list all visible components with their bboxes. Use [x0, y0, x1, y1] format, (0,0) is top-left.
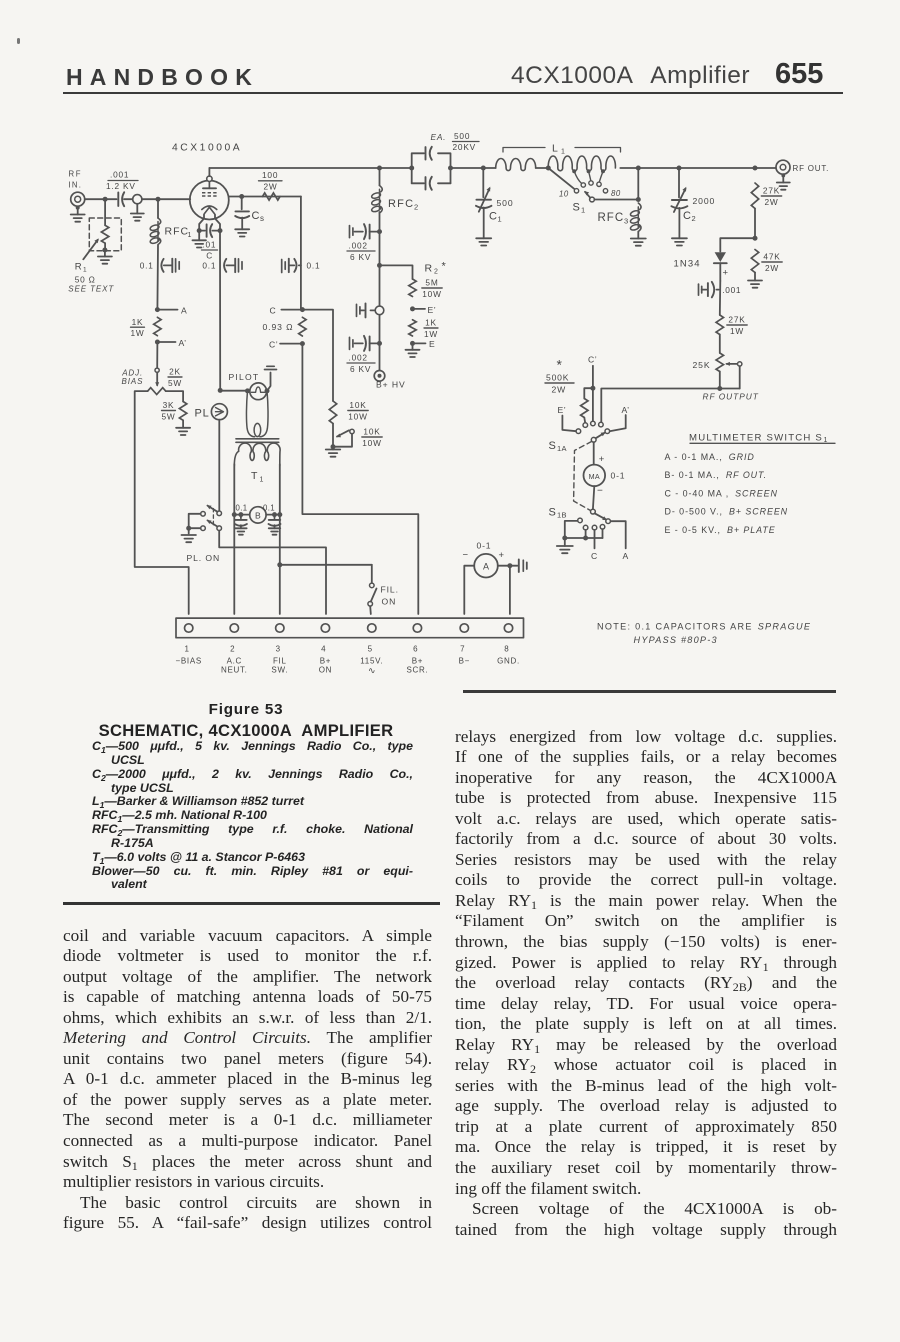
- svg-text:3K: 3K: [163, 400, 175, 410]
- svg-text:E’: E’: [558, 405, 567, 415]
- left column body text: [63, 926, 432, 1234]
- svg-text:1: 1: [184, 645, 189, 654]
- page number: [775, 58, 823, 91]
- svg-text:1: 1: [581, 206, 585, 215]
- capacitor .002 6KV plate bypass lower: [347, 336, 380, 374]
- ground at RF OUT: [777, 174, 790, 190]
- running head chapter title: [511, 62, 750, 90]
- svg-text:0-1: 0-1: [611, 471, 626, 481]
- node C screen metering: [270, 306, 305, 316]
- svg-text:E: E: [429, 339, 436, 349]
- wire to pilot lamp: [220, 388, 250, 393]
- node plate bypass 1: [377, 229, 382, 234]
- svg-text:*: *: [557, 357, 563, 373]
- wire PL switch to terminal 4: [219, 531, 326, 615]
- wire A-prime to bias pot wiper: [156, 342, 158, 368]
- capacitor 0.1 cathode bypass: [202, 259, 242, 273]
- svg-text:B+ HV: B+ HV: [376, 380, 406, 390]
- legend entry B rf out: [665, 470, 768, 480]
- gang link S1A S1B (dashed): [574, 442, 592, 511]
- resistor 0.93 ohm screen meter shunt: [263, 317, 307, 336]
- wire R2 branch: [380, 265, 413, 279]
- svg-text:∿: ∿: [368, 666, 376, 676]
- resistor R2 5M 10W screen dropping: [409, 261, 447, 299]
- pilot lamp leads to T1: [246, 391, 268, 437]
- svg-text:1: 1: [561, 149, 565, 156]
- capacitor C .001 1.2KV input coupling: [106, 170, 138, 207]
- wire RFC1 to bias network: [156, 245, 159, 309]
- svg-text:10: 10: [559, 190, 569, 199]
- node filament junction at pilot: [218, 388, 223, 393]
- rheostat tap 10K 10W screen bleeder lower: [331, 424, 383, 450]
- node Cs tap: [239, 194, 244, 199]
- node L1 tap 10 meter: [546, 166, 551, 171]
- wire 25K to S1A contact B: [601, 372, 739, 423]
- svg-text:T: T: [251, 470, 258, 482]
- svg-text:5W: 5W: [168, 378, 182, 388]
- svg-text:0.1: 0.1: [263, 504, 275, 513]
- svg-text:10W: 10W: [422, 289, 441, 299]
- svg-text:1W: 1W: [130, 328, 144, 338]
- svg-text:2W: 2W: [765, 263, 779, 273]
- wire 27K to divider node: [754, 209, 756, 239]
- svg-text:A: A: [483, 561, 489, 571]
- svg-text:PILOT: PILOT: [229, 372, 260, 382]
- svg-text:RF OUTPUT: RF OUTPUT: [703, 392, 759, 402]
- chassis ground at pilot: [265, 366, 277, 393]
- svg-text:C: C: [591, 551, 598, 561]
- svg-text:4: 4: [321, 645, 326, 654]
- svg-text:B−: B−: [459, 657, 470, 666]
- terminal B+HV: [374, 371, 405, 390]
- terminal labels: [175, 657, 519, 676]
- wire screen line down: [300, 197, 302, 310]
- svg-text:L: L: [552, 143, 559, 155]
- svg-text:1: 1: [260, 477, 264, 484]
- svg-text:IN.: IN.: [69, 181, 83, 190]
- running head HANDBOOK: [66, 64, 259, 91]
- rule above right column: [463, 690, 836, 693]
- transformer T1 core: [236, 439, 279, 443]
- svg-text:B+: B+: [412, 657, 423, 666]
- meter M2 B blower interlock: [234, 507, 279, 523]
- svg-text:2: 2: [434, 269, 438, 276]
- wire 27K 1W to 25K pot: [719, 335, 721, 354]
- svg-text:1: 1: [83, 267, 87, 274]
- inductor RFC2 plate choke: [371, 168, 418, 213]
- label L1 bracket: [503, 143, 621, 156]
- svg-text:S: S: [549, 440, 557, 452]
- svg-text:C: C: [270, 306, 277, 316]
- switch S1A wiper: [549, 432, 606, 453]
- feedthrough terminal at grid input: [133, 195, 142, 204]
- wire bias pot left leg to terminal 1: [135, 391, 189, 614]
- wire tube filament right leg: [215, 215, 220, 230]
- legend entry E b+ plate: [665, 525, 776, 535]
- svg-text:5M: 5M: [425, 278, 438, 288]
- wire S1B contact C net: [591, 530, 598, 561]
- capacitor .001 detector bypass: [699, 282, 742, 298]
- capacitor 0.1 screen bypass: [282, 259, 321, 273]
- capacitor EA 500 20KV blocking (parallel pair): [380, 131, 480, 190]
- wire plate line: [209, 168, 379, 176]
- svg-text:PL: PL: [195, 408, 210, 420]
- ground below 3K resistor: [176, 420, 190, 435]
- inductor L1 tank coil section 2 with taps: [548, 156, 638, 193]
- svg-text:1K: 1K: [425, 318, 437, 328]
- capacitor .01 C filament bypass: [199, 224, 220, 260]
- wire T1 left to terminal 2: [233, 515, 235, 614]
- wire C-prime to S1A: [590, 366, 595, 421]
- resistor 27K 2W detector: [751, 183, 781, 209]
- wire L1 to RF OUT: [638, 167, 776, 169]
- svg-text:10W: 10W: [348, 411, 367, 421]
- node B meter row right: [277, 512, 282, 517]
- legend MULTIMETER SWITCH S1: [689, 433, 835, 445]
- inductor RFC1 grid choke: [149, 199, 191, 244]
- ground below Cs: [235, 229, 249, 236]
- svg-text:B+: B+: [320, 657, 331, 666]
- svg-text:6: 6: [413, 645, 418, 654]
- lamp PL: [195, 404, 228, 420]
- svg-text:C: C: [206, 251, 213, 261]
- switch S3 FIL ON: [368, 565, 399, 614]
- svg-text:NOTE: 0.1 CAPACITORS ARESPRAGU: NOTE: 0.1 CAPACITORS ARESPRAGUE: [597, 622, 811, 632]
- svg-text:7: 7: [460, 645, 465, 654]
- node R2 tap: [377, 263, 382, 268]
- svg-text:0.1: 0.1: [236, 504, 248, 513]
- label RF OUTPUT: [703, 392, 759, 402]
- svg-text:6 KV: 6 KV: [350, 364, 371, 374]
- switch S1B wiper: [591, 509, 608, 520]
- legend entry D b+ screen: [665, 507, 789, 517]
- node C1 tap: [481, 166, 486, 171]
- wire E-prime to S1A contact: [562, 416, 576, 432]
- wire bias pot to 3K resistor: [166, 391, 183, 401]
- node filament left: [197, 228, 202, 233]
- label A-prime net at S1A: [622, 405, 630, 415]
- resistor R1 50 ohm (dashed box, variable): [68, 199, 121, 293]
- svg-text:+: +: [499, 550, 505, 561]
- svg-text:3: 3: [276, 645, 281, 654]
- svg-text:3: 3: [624, 217, 628, 226]
- svg-text:ON: ON: [319, 666, 332, 675]
- svg-text:2W: 2W: [552, 385, 567, 395]
- svg-text:0.93 Ω: 0.93 Ω: [263, 322, 294, 332]
- svg-text:1N34: 1N34: [674, 259, 701, 270]
- capacitor C2 2000 load (variable): [671, 168, 715, 238]
- ground below screen bleeder: [326, 447, 341, 457]
- ground below R2 chain: [406, 343, 420, 357]
- resistor 47K 2W detector load: [751, 250, 782, 273]
- wire EA to C1: [451, 167, 496, 169]
- inductor RFC3: [598, 203, 642, 239]
- svg-text:RFC: RFC: [388, 198, 414, 210]
- svg-text:27K: 27K: [763, 186, 780, 196]
- svg-text:2: 2: [230, 645, 235, 654]
- svg-text:B- 0-1 MA.,RF OUT.: B- 0-1 MA.,RF OUT.: [665, 470, 768, 480]
- svg-text:C: C: [489, 211, 498, 223]
- svg-text:27K: 27K: [728, 315, 745, 325]
- capacitor .002 6KV plate bypass upper: [347, 224, 380, 262]
- svg-text:10W: 10W: [362, 438, 381, 448]
- wire RFC2 to B+HV: [379, 212, 381, 370]
- svg-text:FIL.: FIL.: [381, 585, 399, 595]
- ground at input feedthrough: [131, 204, 144, 221]
- terminal pins 1-8: [185, 624, 513, 632]
- resistor 27K 1W detector filter: [716, 315, 747, 336]
- svg-text:1B: 1B: [557, 511, 567, 520]
- wire A-prime to S1A contact: [610, 415, 626, 431]
- resistor 100 2W screen: [259, 170, 283, 200]
- legend entry C screen: [665, 488, 778, 498]
- ground below C1: [476, 238, 491, 245]
- svg-text:8: 8: [504, 645, 509, 654]
- svg-text:.001: .001: [110, 170, 129, 180]
- node C-prime: [269, 340, 305, 350]
- ground S1B: [557, 538, 573, 553]
- svg-text:BIAS: BIAS: [122, 377, 144, 386]
- svg-text:C - 0-40 MA ,SCREEN: C - 0-40 MA ,SCREEN: [665, 488, 778, 498]
- svg-text:MULTIMETER SWITCH S1: MULTIMETER SWITCH S1: [689, 433, 829, 445]
- svg-text:80: 80: [611, 189, 621, 198]
- svg-text:A - 0-1 MA.,GRID: A - 0-1 MA.,GRID: [665, 452, 755, 462]
- node B meter row left: [232, 512, 237, 517]
- transformer T1 filament winding: [234, 443, 280, 514]
- ground below 47K: [748, 273, 762, 288]
- label C-prime net at S1A: [588, 355, 597, 365]
- svg-text:FIL: FIL: [273, 657, 287, 666]
- label E-prime net at S1A: [558, 405, 567, 415]
- ground at RF IN: [71, 206, 85, 222]
- resistor 1K 1W meter multiplier: [409, 318, 438, 339]
- svg-text:100: 100: [262, 170, 278, 180]
- svg-text:A’: A’: [179, 338, 187, 348]
- figure caption: [57, 701, 435, 741]
- ground below R1: [98, 250, 112, 264]
- wire tube filament left leg: [199, 215, 204, 230]
- right column body text: [455, 727, 837, 1241]
- svg-text:−: −: [463, 550, 469, 561]
- label tube type 4CX1000A: [172, 143, 242, 154]
- svg-text:E’: E’: [428, 305, 437, 315]
- capacitor 0.1 grid bypass: [140, 259, 180, 273]
- svg-text:−: −: [597, 486, 603, 497]
- svg-text:MA: MA: [589, 472, 600, 481]
- svg-text:A: A: [181, 305, 188, 315]
- svg-text:0.1: 0.1: [202, 260, 216, 270]
- head rule: [63, 92, 843, 95]
- capacitor Cs screen bypass: [235, 197, 264, 230]
- tube V1 4CX1000A tetrode: [190, 176, 229, 219]
- svg-text:GND.: GND.: [497, 657, 520, 666]
- resistor 10K 10W screen bleeder upper: [329, 400, 368, 423]
- svg-text:2W: 2W: [764, 197, 778, 207]
- svg-text:A’: A’: [622, 405, 630, 415]
- switch S1B label: [549, 507, 567, 520]
- svg-text:R: R: [75, 262, 83, 273]
- svg-text:+: +: [599, 454, 605, 465]
- resistor 1K 1W grid meter shunt: [130, 317, 161, 338]
- capacitor 0.1 line bypass left: [235, 504, 248, 535]
- diode 1N34 rectifier: [674, 252, 729, 281]
- terminal strip: [176, 618, 524, 638]
- ground below RFC3: [631, 239, 646, 246]
- svg-text:47K: 47K: [763, 252, 780, 262]
- svg-text:B: B: [255, 510, 261, 520]
- svg-text:2000: 2000: [693, 196, 716, 206]
- svg-text:.001: .001: [722, 285, 741, 295]
- svg-text:1K: 1K: [132, 317, 144, 327]
- svg-text:HYPASS #80P-3: HYPASS #80P-3: [634, 635, 718, 645]
- svg-text:RF: RF: [69, 170, 83, 179]
- svg-text:1A: 1A: [557, 444, 567, 453]
- svg-text:.002: .002: [349, 241, 368, 251]
- node grid RFC tap: [156, 197, 161, 202]
- svg-text:SCR.: SCR.: [406, 666, 428, 675]
- wire S1B contact E to ground bus: [565, 521, 578, 538]
- svg-text:RFC: RFC: [598, 212, 625, 224]
- svg-text:1: 1: [498, 215, 502, 224]
- svg-text:4CX1000A: 4CX1000A: [172, 143, 242, 154]
- svg-text:500K: 500K: [546, 373, 569, 383]
- svg-text:s: s: [260, 214, 264, 223]
- svg-text:*: *: [442, 261, 447, 273]
- svg-text:ON: ON: [382, 597, 397, 607]
- connector J2 RF OUT: [776, 160, 829, 174]
- potentiometer 2K 5W ADJ BIAS: [121, 367, 182, 395]
- wire screen line: [229, 196, 301, 198]
- svg-text:50 Ω: 50 Ω: [75, 275, 96, 285]
- node E tap: [410, 339, 436, 349]
- switch S2 PL ON (2 pole): [186, 420, 221, 563]
- svg-text:0.1: 0.1: [140, 260, 154, 270]
- svg-text:2: 2: [692, 214, 696, 223]
- switch S1B contacts: [578, 518, 605, 530]
- svg-text:.002: .002: [349, 353, 368, 363]
- ground below C2: [672, 238, 687, 245]
- svg-text:R: R: [425, 263, 433, 275]
- svg-text:S: S: [573, 202, 581, 214]
- svg-text:PL. ON: PL. ON: [187, 553, 221, 563]
- ground PL ON switch: [181, 535, 196, 542]
- svg-text:5W: 5W: [161, 411, 175, 421]
- wire screen supply to terminal 6: [302, 344, 418, 614]
- wire node C to screen bleeder: [302, 310, 333, 401]
- node 27K tap: [753, 166, 758, 171]
- wire diode to 27K 1W: [719, 281, 722, 315]
- feedthrough capacitor on B+HV line: [357, 303, 384, 317]
- svg-text:1W: 1W: [730, 326, 744, 336]
- svg-text:D- 0-500 V.,B+ SCREEN: D- 0-500 V.,B+ SCREEN: [665, 507, 789, 517]
- node C2 tap: [677, 166, 682, 171]
- node filament right: [218, 228, 223, 233]
- svg-text:A.C: A.C: [227, 657, 242, 666]
- svg-text:NEUT.: NEUT.: [221, 666, 248, 675]
- svg-text:115V.: 115V.: [360, 657, 383, 666]
- wire MA meter to S1B: [593, 486, 603, 510]
- svg-text:500: 500: [454, 131, 470, 141]
- inductor L1 tank coil section 1: [496, 158, 549, 170]
- svg-text:500: 500: [497, 198, 514, 208]
- wire T1 right to terminal 3: [279, 515, 281, 614]
- svg-text:C’: C’: [588, 355, 597, 365]
- resistor 3K 5W bias bleeder: [161, 400, 186, 421]
- wire S1B wiper to A net: [606, 519, 629, 561]
- lamp PILOT: [229, 372, 267, 400]
- svg-text:10K: 10K: [363, 427, 380, 437]
- svg-text:S: S: [549, 507, 557, 519]
- node RFC2 top: [377, 166, 382, 171]
- svg-text:C: C: [252, 210, 261, 222]
- resistor 500K 2W multiplier: [545, 357, 593, 423]
- svg-text:−BIAS: −BIAS: [175, 657, 201, 666]
- wire RF IN to coupling capacitor: [85, 198, 117, 200]
- svg-text:A: A: [623, 551, 630, 561]
- svg-text:0.1: 0.1: [307, 260, 321, 270]
- node RFC3 top: [636, 166, 641, 203]
- connector J1 RF IN: [69, 170, 85, 207]
- node plate bypass 2: [377, 341, 382, 346]
- capacitor bypass at GND terminal: [510, 559, 527, 572]
- svg-text:E - 0-5 KV.,B+ PLATE: E - 0-5 KV.,B+ PLATE: [665, 525, 776, 535]
- svg-text:2K: 2K: [169, 367, 181, 377]
- wire S1A to MA meter: [594, 442, 605, 465]
- svg-text:2W: 2W: [264, 182, 278, 192]
- separator rule left column: [63, 902, 440, 906]
- node A-prime: [155, 338, 187, 348]
- svg-text:C: C: [683, 210, 692, 222]
- svg-text:C’: C’: [269, 340, 278, 350]
- wire terminal 3 to FIL ON switch: [277, 562, 372, 567]
- node E-prime tap: [410, 305, 436, 315]
- ground filament left: [192, 231, 206, 248]
- svg-text:0-1: 0-1: [477, 540, 492, 550]
- terminal numbers: [184, 645, 509, 654]
- node R1 tap junction: [103, 197, 108, 202]
- wire S1B ground bus: [562, 529, 602, 540]
- switch S1 bandswitch wiper: [548, 168, 638, 215]
- svg-text:10K: 10K: [349, 400, 366, 410]
- svg-text:+: +: [723, 268, 729, 279]
- svg-text:RFC: RFC: [165, 226, 190, 238]
- node A (grid metering tap): [155, 305, 188, 315]
- svg-text:RF OUT.: RF OUT.: [793, 164, 830, 173]
- svg-text:6 KV: 6 KV: [350, 252, 371, 262]
- wire divider to diode: [720, 238, 755, 251]
- svg-text:1W: 1W: [424, 329, 438, 339]
- svg-text:1: 1: [188, 232, 192, 239]
- note sprague capacitors: [597, 622, 811, 646]
- capacitor 0.1 line bypass right: [263, 504, 281, 535]
- meter M1 MA 0-1 multimeter: [584, 465, 626, 487]
- svg-text:SEE TEXT: SEE TEXT: [68, 285, 114, 294]
- svg-text:20KV: 20KV: [453, 142, 477, 152]
- switch S1A contacts: [576, 421, 609, 433]
- svg-text:2: 2: [414, 203, 418, 212]
- wire feedthrough to grid: [142, 198, 190, 200]
- svg-text:EA.: EA.: [431, 132, 447, 142]
- parts list: [92, 740, 413, 892]
- svg-text:25K: 25K: [693, 360, 711, 370]
- legend entry A grid: [665, 452, 755, 462]
- svg-text:1.2 KV: 1.2 KV: [106, 181, 136, 191]
- node detector divider: [753, 236, 758, 241]
- svg-text:SW.: SW.: [271, 666, 288, 675]
- potentiometer 25K rf output level: [693, 353, 742, 389]
- svg-text:5: 5: [368, 645, 373, 654]
- page speck: [17, 38, 20, 44]
